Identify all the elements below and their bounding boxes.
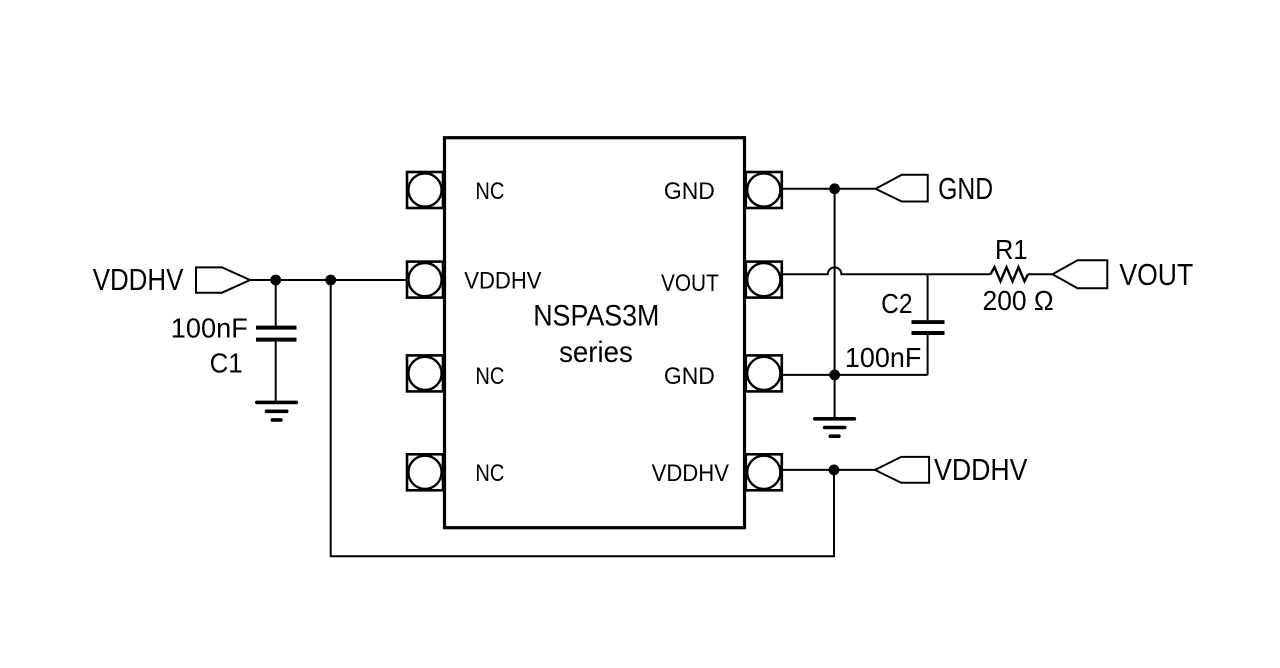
junction node VDDHV / bottom wrap [325,275,336,286]
capacitor C1 top lead [275,280,277,326]
junction node VDDHV / C1 [270,275,281,286]
svg-text:VDDHV: VDDHV [934,452,1028,487]
wire pin 8 to GND port [782,188,876,190]
svg-text:series: series [559,336,633,369]
wire GND vertical (pin 8 junction down to ground) [834,189,836,417]
svg-text:VDDHV: VDDHV [464,267,541,294]
svg-text:GND: GND [664,363,715,390]
svg-text:C1: C1 [210,347,243,378]
port VDDHV input (left) [196,267,250,292]
junction node VDDHV pin 5 [829,465,840,476]
pin 7 pad (right row 2) VOUT [746,262,782,298]
svg-text:NC: NC [475,178,504,205]
capacitor C2 [912,322,945,333]
wire pin 7 VOUT to R1 (with hop over GND wire) [782,267,991,274]
svg-text:NC: NC [475,363,504,390]
ground (C1) [257,402,297,420]
svg-text:VDDHV: VDDHV [93,262,184,297]
svg-text:NSPAS3M: NSPAS3M [533,300,659,333]
pin 3 pad (left row 3) [407,355,443,391]
junction node GND pin 8 [829,183,840,194]
svg-text:R1: R1 [995,234,1028,265]
pin 4 pad (left row 4) [407,454,443,490]
wire VOUT to C2 tap (corner) [927,274,929,320]
svg-text:VOUT: VOUT [1119,257,1193,292]
svg-text:GND: GND [938,171,993,206]
wire pin 6 to C2 bottom [782,374,928,376]
wire VDDHV port to pin 2 [250,279,407,281]
pin 8 pad (right row 1) GND [746,172,782,208]
svg-text:VOUT: VOUT [661,270,719,297]
pin 5 pad (right row 4) VDDHV [746,454,782,490]
capacitor C2 bottom lead [927,335,929,375]
IC U1 NSPAS3M body [445,138,745,528]
wire pin 5 to VDDHV port [782,469,875,471]
capacitor C1 [256,328,297,340]
junction node GND / pin 6 [829,370,840,381]
port GND (right) [876,175,928,202]
pin 1 pad (left row 1) [407,172,443,208]
pin 6 pad (right row 3) GND [746,355,782,391]
svg-text:C2: C2 [881,288,912,319]
wire bottom wrap: junction down, across, up to pin 5 net [331,280,834,556]
svg-text:VDDHV: VDDHV [652,460,729,487]
svg-text:100nF: 100nF [845,342,921,373]
capacitor C1 bottom lead [275,342,277,401]
pin 2 pad (left row 2) VDDHV [407,262,443,298]
svg-text:200 Ω: 200 Ω [983,285,1054,316]
resistor R1 [991,267,1029,281]
port VOUT [1053,260,1108,288]
ground (GND net) [815,419,855,436]
svg-text:100nF: 100nF [171,312,248,343]
svg-text:GND: GND [664,178,715,205]
wire R1 to VOUT port [1028,273,1053,275]
svg-text:NC: NC [475,460,504,487]
port VDDHV (right) [875,457,929,483]
